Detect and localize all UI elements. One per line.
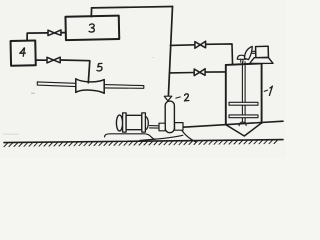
- valve V2 on branch 2: [194, 69, 205, 76]
- wire: valve A to box 3: [61, 32, 66, 34]
- agitator motor stand (trapezoid): [250, 58, 273, 64]
- foundation: motor base plate: [105, 134, 156, 140]
- agitator shaft: [242, 62, 245, 123]
- pump motor body: [126, 115, 142, 129]
- wire: box4 top stub and run to valve A: [27, 33, 48, 41]
- wire: stub from box 3 top: [90, 8, 92, 17]
- valve V1 on branch 1: [195, 41, 206, 48]
- wire: box 4 right to valve B: [36, 59, 47, 61]
- label 5: [97, 63, 102, 71]
- label 1: [269, 86, 272, 95]
- label 3: [89, 24, 94, 32]
- tank 1 shell: [226, 63, 262, 124]
- box 3 (instrument): [65, 16, 119, 41]
- pump motor right end cap: [145, 117, 148, 130]
- foundation: pump mound right side: [182, 131, 196, 142]
- agitator paddle lower: [229, 115, 258, 118]
- arrow: flow arrow into pump 2: [164, 96, 171, 101]
- box 4 (instrument): [11, 41, 36, 66]
- wire: valve B to corner and down to valve 5 stem: [60, 60, 90, 83]
- pump 2 vertical casing: [165, 101, 174, 133]
- wire: main riser down to pump: [168, 7, 172, 96]
- scan speckles: [3, 57, 154, 135]
- pump motor right flange: [142, 113, 146, 132]
- foundation: mound under pump: [140, 135, 183, 140]
- pipe: double line right of valve 5: [104, 85, 144, 89]
- label 2: [184, 94, 189, 101]
- pump left flange: [159, 123, 165, 131]
- valve 5 (control valve on double-line pipe): [76, 79, 104, 93]
- label 2 pointer dash: [176, 97, 181, 98]
- label 4: [20, 48, 26, 56]
- ground hatching: [4, 140, 278, 147]
- agitator paddle upper: [229, 102, 258, 105]
- pump motor left flange: [123, 113, 127, 132]
- branch 2 wire: riser to tank wall: [170, 72, 226, 73]
- agitator motor U-M body: [256, 46, 269, 58]
- wire: top horizontal run: [92, 7, 173, 8]
- pipe: double line left of valve 5: [37, 82, 76, 87]
- pump motor left end cap: [116, 115, 122, 131]
- branch 1 wire: riser to tank top: [170, 44, 232, 64]
- pump right flange: [175, 123, 183, 131]
- pipe: pump discharge to right edge (passes behind tank cone): [183, 121, 283, 127]
- tank 1 conical bottom: [226, 123, 262, 136]
- valve A (between box 4 line and box 3): [48, 30, 61, 36]
- top bearing dome (mushroom): [237, 55, 245, 59]
- valve B: [47, 57, 60, 63]
- agitator bottom bearing dome: [239, 122, 246, 126]
- drive shaft link: [252, 51, 256, 53]
- coupling shaft to pump: [150, 126, 160, 129]
- ground line: [4, 140, 283, 143]
- belt drive (curved belt to motor): [245, 46, 253, 59]
- label 1 pointer dash: [264, 90, 267, 91]
- paper background: [0, 0, 286, 158]
